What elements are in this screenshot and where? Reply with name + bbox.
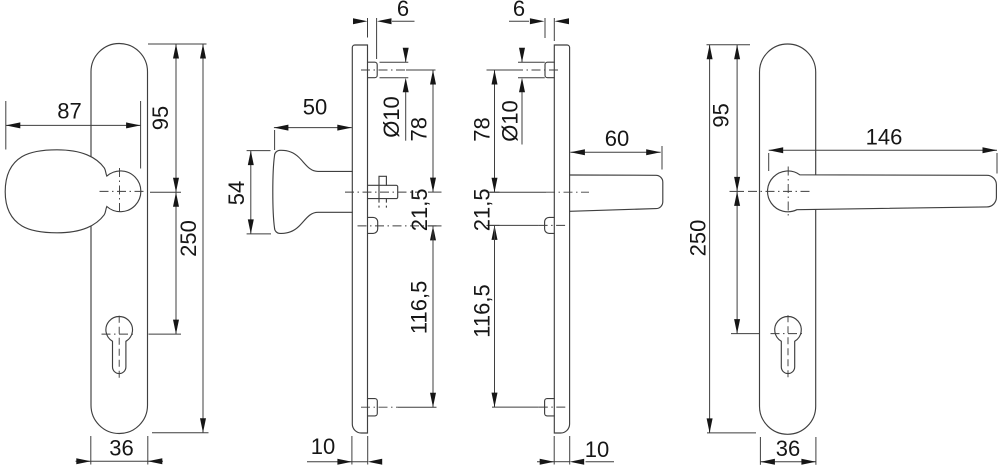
- dimension 116,5 cylinder to boss P3: [494, 225, 496, 407]
- svg-text:50: 50: [303, 94, 327, 119]
- cylinder boss P2 (side view): [368, 217, 378, 233]
- centreline lever P3: [490, 191, 546, 193]
- extension tick spindle centre P2: [428, 191, 442, 193]
- backplate P1 (front view, knob side): [91, 44, 148, 434]
- svg-text:95: 95: [148, 106, 173, 130]
- dimension 250 plate height P4: [709, 45, 711, 433]
- spindle nose upper: [379, 176, 386, 185]
- svg-text:250: 250: [176, 220, 201, 257]
- svg-text:116,5: 116,5: [470, 284, 495, 337]
- svg-text:Ø10: Ø10: [498, 100, 523, 142]
- dimension 87 knob depth: [5, 101, 7, 150]
- extension tick spindle centre P3: [487, 191, 500, 193]
- dimension 50 knob projection: [274, 130, 276, 150]
- svg-text:78: 78: [470, 117, 495, 141]
- knob K1 (side view): [273, 150, 353, 233]
- dimension 95 top to handle centre: [175, 44, 177, 192]
- svg-text:21,5: 21,5: [470, 188, 495, 231]
- dimension 10 plate thickness P3: [553, 436, 555, 465]
- dimension handle centre to cylinder centre P1: [175, 192, 177, 334]
- extension line plate P1 bottom: [152, 432, 209, 434]
- svg-text:95: 95: [709, 103, 734, 127]
- dimension 95 top to handle centre P4: [736, 45, 738, 192]
- spindle nose lower hidden: [378, 199, 380, 208]
- dimension handle centre to cylinder centre P4: [736, 191, 738, 333]
- dimension 36 plate width P4: [759, 437, 761, 465]
- centreline cylinder boss P3: [490, 224, 539, 226]
- dimension 116,5 cylinder to boss P2: [432, 226, 434, 407]
- svg-text:60: 60: [605, 126, 629, 151]
- extension line plate P4 bottom: [707, 432, 756, 434]
- backplate P4 (front view, lever side): [760, 44, 816, 434]
- dimension 60 lever hub projection: [661, 146, 663, 170]
- dimension 21,5 spindle to cylinder P2: [428, 225, 442, 227]
- dimension 36 plate width P1: [90, 436, 92, 465]
- knob K1 (front view): [5, 150, 141, 233]
- svg-text:54: 54: [224, 181, 249, 205]
- svg-text:87: 87: [57, 99, 81, 124]
- dimension diameter 10 boss P3: [518, 61, 545, 63]
- centreline knob K1 horizontal: [100, 190, 147, 192]
- dimension 54 knob height: [247, 150, 271, 152]
- centreline boss B4: [492, 406, 539, 408]
- dimension 146 lever length: [768, 153, 770, 171]
- svg-text:Ø10: Ø10: [379, 96, 404, 138]
- euro-profile cylinder hole P1: [106, 317, 133, 374]
- centreline lever neck horizontal: [748, 190, 812, 192]
- spindle hub (side view): [368, 185, 398, 198]
- svg-text:10: 10: [311, 434, 335, 459]
- centreline boss B3: [487, 69, 515, 71]
- centreline spindle P2: [345, 191, 420, 193]
- extension line plate P4 top: [707, 44, 751, 46]
- centreline lever neck vertical: [787, 167, 789, 218]
- extension line plate P1 top: [148, 43, 207, 45]
- extension line cylinder centre P4: [731, 333, 759, 335]
- dimension 78 boss to spindle P2: [432, 70, 434, 192]
- svg-text:78: 78: [407, 117, 432, 141]
- svg-text:36: 36: [109, 436, 133, 461]
- dimension 250 plate height P1: [202, 44, 204, 433]
- dimension 6 boss projection P2: [367, 18, 369, 38]
- cylinder boss P3 (side view): [545, 217, 555, 233]
- backplate P3 (side view, lever side): [554, 45, 569, 433]
- centreline cylinder hole P1 horizontal: [102, 333, 135, 335]
- centreline cylinder hole P4 horizontal: [771, 333, 804, 335]
- screw boss B3 top (side view): [545, 62, 554, 77]
- svg-text:146: 146: [866, 125, 903, 150]
- centreline cylinder boss P2: [358, 225, 438, 227]
- backplate P2 (side view, knob side): [352, 45, 367, 433]
- extension tick handle centre P1: [150, 191, 181, 193]
- svg-text:10: 10: [585, 437, 609, 462]
- svg-text:250: 250: [685, 220, 710, 257]
- dimension diameter 10 boss P2: [380, 61, 409, 63]
- screw boss B2 bottom (side view): [368, 399, 378, 416]
- centreline cylinder hole P4 vertical: [787, 315, 789, 379]
- lever handle L1 (side view): [570, 175, 663, 211]
- svg-text:116,5: 116,5: [406, 281, 431, 334]
- centreline boss B1: [361, 69, 406, 71]
- extension tick handle centre P4: [730, 190, 745, 192]
- dimension 10 plate thickness P2: [351, 436, 353, 465]
- lever handle L1 (front view): [768, 171, 997, 212]
- euro-profile cylinder hole P4: [775, 317, 802, 374]
- svg-text:36: 36: [776, 436, 800, 461]
- svg-text:21,5: 21,5: [407, 188, 432, 231]
- svg-text:6: 6: [513, 0, 525, 21]
- screw boss B4 bottom (side view): [545, 399, 555, 416]
- dimension 21,5 spindle to cylinder P3: [487, 224, 500, 226]
- dimension 6 boss projection P3: [544, 18, 546, 38]
- centreline boss B2: [361, 406, 398, 408]
- centreline knob K1 vertical: [119, 168, 121, 215]
- centreline cylinder hole P1 vertical: [118, 316, 120, 380]
- screw boss B1 top (side view): [368, 62, 378, 77]
- svg-text:6: 6: [397, 0, 409, 21]
- dimension 78 boss to spindle P3: [494, 70, 496, 192]
- extension line cylinder centre P1: [149, 333, 182, 335]
